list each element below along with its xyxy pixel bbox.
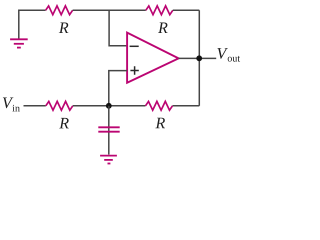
wire — [173, 9, 200, 11]
node input junction — [106, 103, 112, 109]
wire — [24, 105, 46, 107]
wire — [198, 10, 200, 106]
label R (R1 value) — [59, 23, 69, 33]
label R (R3 value) — [59, 118, 69, 128]
wire — [19, 10, 46, 39]
wire — [109, 10, 127, 46]
resistor R4 — [146, 101, 173, 110]
node output junction — [196, 55, 202, 61]
op-amp U1 — [127, 33, 179, 83]
wire — [108, 106, 110, 155]
wire — [109, 71, 127, 106]
op-amp non-inverting input label + — [130, 66, 138, 74]
label R (R2 value) — [158, 23, 168, 33]
op-amp inverting input label - — [130, 45, 139, 47]
ground — [100, 156, 117, 164]
label Vin — [3, 98, 20, 112]
wire — [179, 57, 217, 59]
wire — [73, 9, 146, 11]
label Vout — [217, 48, 240, 61]
wire — [73, 105, 146, 107]
wire — [173, 105, 200, 107]
label R (R4 value) — [155, 118, 165, 128]
resistor R1 — [46, 6, 73, 15]
ground — [10, 39, 28, 47]
resistor R2 — [146, 6, 173, 15]
capacitor C1 — [98, 127, 119, 131]
resistor R3 — [46, 101, 73, 110]
